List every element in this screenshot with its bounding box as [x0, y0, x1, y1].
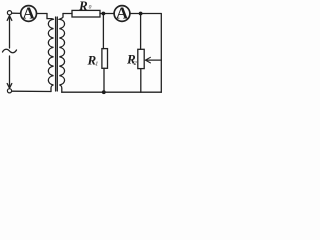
svg-text:1: 1	[95, 62, 98, 68]
svg-text:A: A	[22, 4, 35, 23]
svg-text:2: 2	[134, 61, 137, 67]
svg-text:0: 0	[89, 4, 92, 10]
svg-text:A: A	[116, 4, 129, 23]
svg-text:R: R	[78, 0, 88, 13]
